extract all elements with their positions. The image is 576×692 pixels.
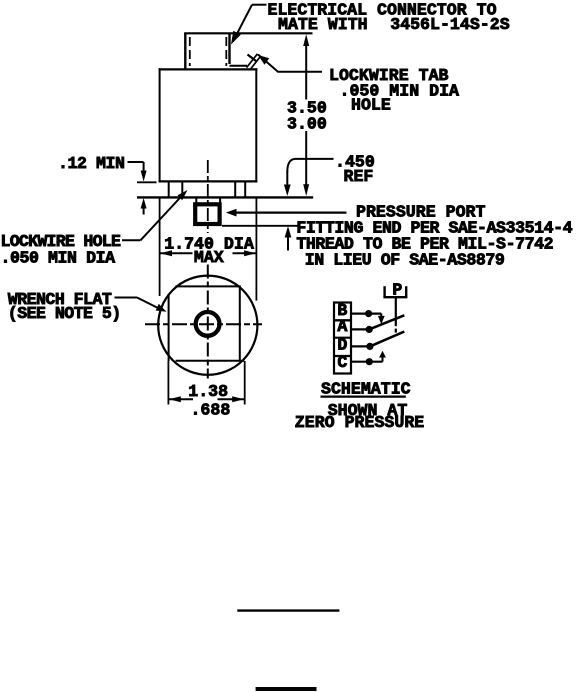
- svg-text:3456L-14S-2S: 3456L-14S-2S: [390, 15, 510, 34]
- svg-text:C: C: [337, 353, 347, 372]
- svg-text:.12 MIN: .12 MIN: [58, 154, 125, 173]
- svg-text:1.38: 1.38: [188, 382, 228, 401]
- svg-text:IN LIEU OF SAE-AS8879: IN LIEU OF SAE-AS8879: [305, 250, 505, 269]
- svg-text:ZERO PRESSURE: ZERO PRESSURE: [295, 413, 424, 432]
- svg-text:MATE WITH: MATE WITH: [278, 15, 368, 34]
- svg-text:.688: .688: [190, 400, 230, 419]
- svg-text:HOLE: HOLE: [351, 96, 391, 115]
- svg-text:(SEE NOTE 5): (SEE NOTE 5): [8, 304, 121, 323]
- svg-text:P: P: [392, 281, 402, 300]
- svg-text:D: D: [337, 336, 347, 355]
- svg-text:A: A: [337, 317, 347, 336]
- svg-text:.050 MIN DIA: .050 MIN DIA: [1, 248, 116, 267]
- svg-text:REF: REF: [344, 167, 374, 186]
- svg-text:SCHEMATIC: SCHEMATIC: [321, 380, 411, 399]
- svg-text:MAX: MAX: [194, 248, 224, 267]
- svg-text:3.00: 3.00: [287, 115, 327, 134]
